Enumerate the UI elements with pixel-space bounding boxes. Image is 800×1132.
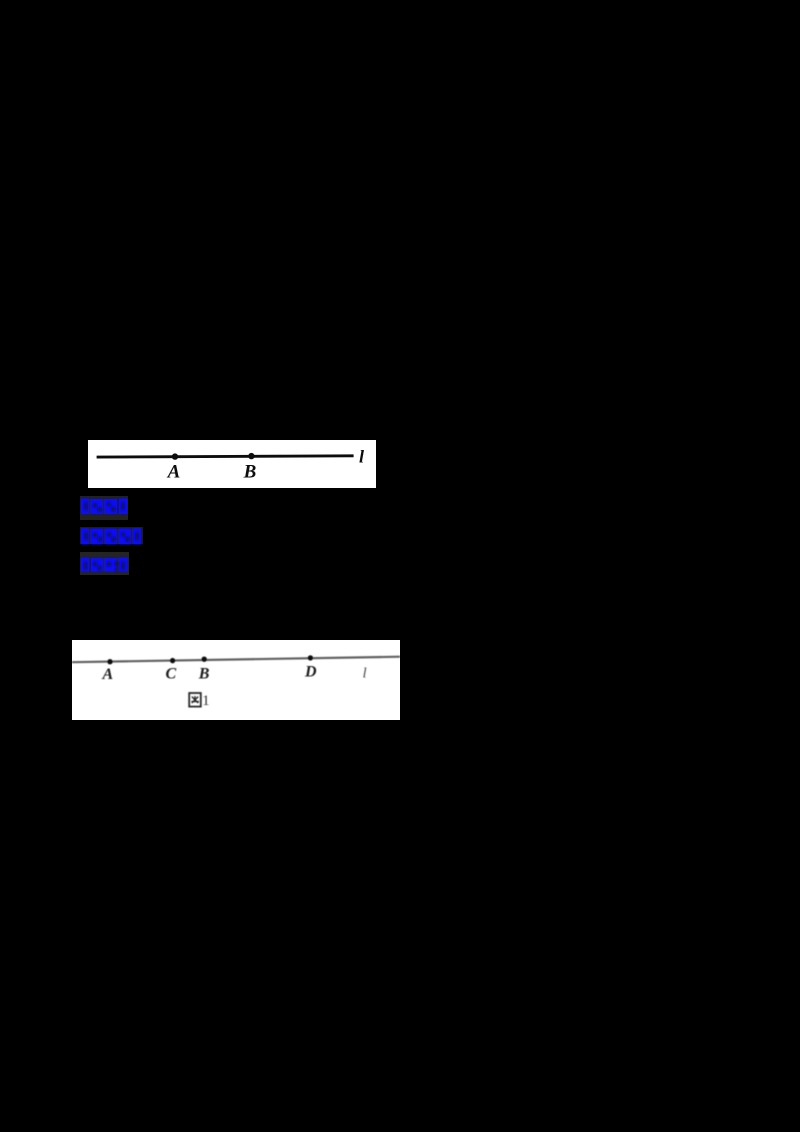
svg-text:B: B	[198, 665, 210, 682]
svg-text:l: l	[363, 665, 367, 681]
svg-text:C: C	[165, 665, 176, 682]
node B dot	[248, 453, 254, 459]
svg-text:A: A	[101, 666, 113, 683]
blue answer label row 3	[80, 552, 129, 576]
blue answer label row 1	[80, 496, 128, 520]
node A dot	[172, 453, 178, 459]
svg-text:1: 1	[202, 692, 209, 708]
node A dot	[107, 659, 112, 664]
node D dot	[308, 655, 313, 660]
svg-text:D: D	[304, 663, 317, 680]
panel 1 (white figure: line l with points A, B)	[88, 440, 376, 488]
svg-text:l: l	[359, 447, 364, 467]
svg-text:A: A	[167, 462, 181, 483]
wire: line l segment	[97, 456, 354, 457]
node C dot	[170, 657, 175, 662]
caption box: 图 glyph	[189, 693, 201, 707]
wire: line l segment (slightly tilted)	[72, 656, 400, 662]
node B dot	[202, 656, 207, 661]
blue answer label row 2	[80, 527, 143, 544]
panel 2 (white figure 1: line l with points A, C, B, D)	[72, 640, 400, 720]
svg-text:B: B	[243, 462, 257, 483]
